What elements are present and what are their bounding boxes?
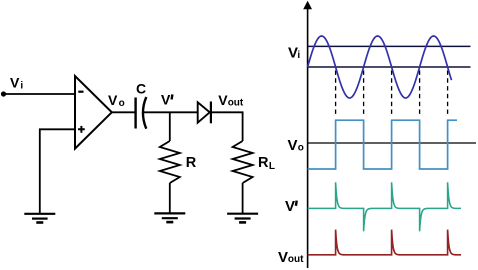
waveform V' spikes <box>308 182 461 231</box>
dashed line t3 <box>391 71 393 118</box>
axis arrowhead <box>303 1 312 9</box>
wire op-amp output <box>112 111 135 113</box>
graph label Vi <box>288 45 300 62</box>
capacitor C <box>136 97 147 129</box>
op-amp U1 <box>75 76 112 149</box>
svg-text:C: C <box>136 80 146 96</box>
op-amp minus sign <box>78 91 83 93</box>
resistor RL label <box>258 155 275 172</box>
wire diode to resistor RL <box>211 112 243 141</box>
ground (op-amp + input) <box>24 214 55 223</box>
wire resistor RL to ground <box>242 183 244 213</box>
svg-text:L: L <box>269 161 275 172</box>
node Vout label (circuit) <box>218 92 244 109</box>
node Vo label <box>108 92 125 109</box>
resistor RL <box>233 141 253 183</box>
svg-text:R: R <box>258 155 269 171</box>
svg-text:R: R <box>186 155 197 171</box>
svg-text:V: V <box>161 92 171 108</box>
wire Vi to op-amp inverting input <box>4 93 76 95</box>
svg-text:V: V <box>10 75 20 91</box>
svg-text:out: out <box>288 254 304 265</box>
svg-text:i: i <box>297 50 300 61</box>
wire capacitor to diode <box>144 111 198 113</box>
svg-text:V: V <box>285 198 295 215</box>
node V' label <box>161 92 172 108</box>
svg-text:o: o <box>298 143 304 154</box>
lower reference level line <box>308 66 471 68</box>
resistor R <box>160 141 180 183</box>
op-amp plus sign <box>78 126 85 133</box>
wire op-amp non-inverting input to ground <box>40 129 75 213</box>
node Vi label <box>10 75 23 92</box>
dashed line t1 <box>335 71 337 118</box>
graph label V' <box>285 198 297 215</box>
upper reference level line <box>308 45 471 47</box>
waveform Vout spikes <box>308 230 461 255</box>
diode D1 <box>198 102 211 124</box>
time axis (vertical) <box>307 8 309 268</box>
svg-text:V: V <box>288 137 298 154</box>
svg-text:V: V <box>108 92 118 108</box>
svg-text:o: o <box>119 98 125 109</box>
zero line for Vo <box>308 142 476 144</box>
wire node V' down to resistor R <box>169 112 171 141</box>
graph label Vo <box>288 137 304 154</box>
svg-text:V: V <box>278 249 288 266</box>
wire resistor R to ground <box>169 183 171 213</box>
svg-text:out: out <box>228 98 244 109</box>
graph label Vout <box>278 249 304 266</box>
ground (resistor R) <box>154 213 185 222</box>
svg-text:i: i <box>20 80 23 91</box>
dashed line t5 <box>447 71 449 118</box>
ground (resistor RL) <box>227 214 258 223</box>
waveform Vo square <box>308 120 457 169</box>
dashed line t2 <box>363 71 365 118</box>
dashed line t4 <box>419 71 421 118</box>
waveform Vi sine <box>308 36 452 98</box>
input terminal dot <box>1 91 6 96</box>
